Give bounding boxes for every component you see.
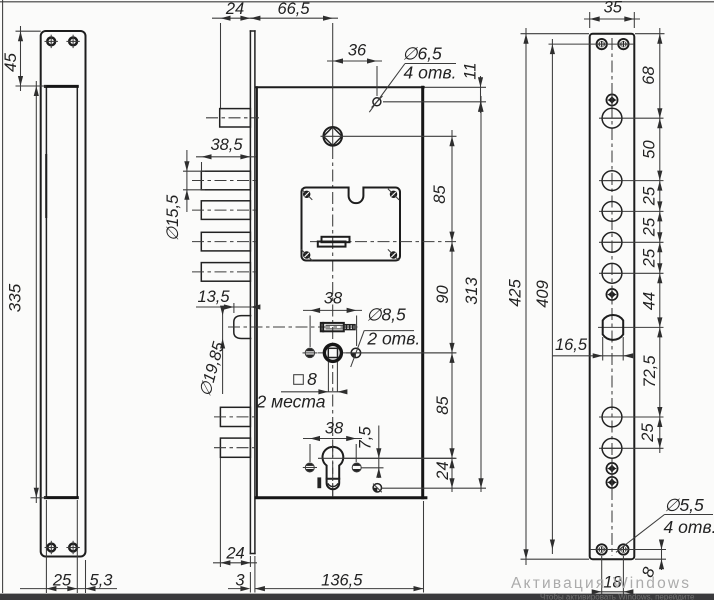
center: plate screw top-right: [390, 191, 397, 198]
right view: hole F: [602, 407, 622, 427]
svg-text:38: 38: [325, 420, 344, 438]
dim 425 ext: [521, 33, 590, 35]
label square 8: [294, 375, 304, 385]
right view: hole E ext: [599, 272, 664, 274]
dim 45 extension lines: [16, 30, 41, 32]
dim 8: [661, 541, 663, 570]
svg-text:25: 25: [641, 217, 659, 237]
center: lower bolt 2: [220, 438, 250, 457]
dim 38 upper: [303, 309, 362, 311]
dim dia15,5 ext: [183, 170, 205, 172]
right view: oval cylinder hole: [603, 315, 624, 340]
dim 16,5 ext: [602, 337, 604, 361]
dim 38,5: [196, 156, 256, 158]
center: deadbolt 3 centerline: [192, 241, 256, 243]
svg-text:25: 25: [639, 423, 657, 443]
svg-text:68: 68: [640, 66, 658, 85]
svg-text:2 отв.: 2 отв.: [366, 329, 420, 349]
center: euro cylinder: [323, 447, 344, 479]
dim 35 ext: [589, 12, 591, 28]
left view: dark edge segment: [45, 155, 47, 217]
svg-text:8: 8: [307, 369, 317, 389]
right view: hole C: [602, 202, 622, 222]
right chain ext lines: [345, 135, 457, 137]
dim 335: [35, 81, 37, 503]
svg-text:44: 44: [641, 292, 659, 310]
dim 313: [480, 96, 482, 492]
chain arrows: [449, 136, 454, 146]
center: roller bolt: [234, 316, 251, 339]
right view: hole B ext: [599, 180, 664, 182]
dim 409: [551, 39, 553, 554]
svg-text:∅8,5: ∅8,5: [366, 305, 406, 325]
dim chain 85/90/85/24 line: [451, 130, 453, 492]
right view: hole G ext: [599, 447, 664, 449]
dim 335 extension line: [31, 497, 47, 499]
leader dia8.5: [351, 331, 365, 367]
svg-text:∅15,5: ∅15,5: [164, 194, 182, 241]
svg-text:2 места: 2 места: [256, 392, 326, 412]
center: deadbolt 1 centerline: [192, 180, 256, 182]
left view: inner recess: [46, 86, 77, 498]
center: deadbolt 4 centerline: [192, 271, 256, 273]
left view: screw hole top-left: [47, 38, 55, 46]
dim 7,5 ext: [361, 467, 384, 469]
right view: csk hole 1: [606, 94, 617, 105]
dim 136,5: [255, 588, 424, 590]
center: key pin body: [321, 323, 344, 331]
svg-text:72,5: 72,5: [641, 355, 659, 388]
svg-text:4 отв.: 4 отв.: [664, 517, 714, 537]
center: hole left of follower: [305, 348, 314, 357]
svg-text:∅6,5: ∅6,5: [402, 44, 442, 64]
svg-text:136,5: 136,5: [321, 572, 363, 590]
dim 5,3: [86, 586, 96, 591]
dim 24 top: [212, 17, 256, 19]
dim sq8 ext: [327, 362, 329, 392]
dim 38,5 ext: [201, 162, 203, 171]
dim 24 top ext: [220, 23, 222, 108]
right view: hole C ext: [599, 210, 664, 212]
leader dia6,5: [377, 64, 405, 102]
left view: screw hole bottom-right: [69, 544, 77, 552]
dim 38 lower: [303, 438, 362, 440]
svg-text:45: 45: [1, 53, 20, 72]
svg-text:24: 24: [225, 545, 244, 563]
center: lower bolt 2 centerline: [214, 447, 256, 449]
svg-text:409: 409: [534, 280, 552, 308]
center: deadbolt 4: [201, 263, 250, 282]
center: plate screw top-left: [303, 191, 310, 198]
center: deadbolt 2: [201, 201, 250, 220]
left view: recess bottom edge: [45, 496, 77, 499]
left view: screw hole bottom-left: [47, 544, 55, 552]
dim 8 ext: [590, 549, 666, 551]
right view: faceplate outline: [590, 34, 635, 560]
dim 35: [584, 18, 640, 20]
svg-text:Активация Windows: Активация Windows: [511, 575, 691, 592]
center: lower bolt 1: [220, 407, 250, 426]
dim dia19,85: [222, 307, 224, 394]
right view: centerline: [611, 38, 613, 556]
left view: strike plate outline: [41, 31, 86, 557]
dim 66,5 top: [250, 17, 338, 19]
center: vertical centerline: [332, 23, 334, 147]
bottom ext lines: [249, 556, 251, 567]
svg-text:38: 38: [324, 290, 343, 308]
center: top latch bolt centerline: [206, 117, 259, 119]
right view: hole B: [602, 171, 622, 191]
center: cylinder fixing lug: [317, 477, 321, 488]
center: plate screw bottom-left: [303, 251, 310, 258]
right view: screw top-left: [596, 38, 608, 50]
center: cylinder centerline: [318, 457, 456, 459]
svg-text:4 отв.: 4 отв.: [404, 63, 457, 83]
svg-text:335: 335: [6, 283, 25, 312]
right view: hole A: [602, 108, 622, 128]
center: handle slot: [322, 237, 350, 242]
svg-text:313: 313: [463, 276, 481, 304]
center: deadbolt 2 centerline: [192, 209, 256, 211]
right view: screw top-right: [617, 38, 629, 50]
dim 18 ext: [601, 556, 603, 595]
dim 38 upper ext: [309, 316, 311, 348]
center: spindle hole: [323, 127, 342, 146]
center: hole right of cylinder: [352, 463, 361, 472]
center: mounting plate notch: [349, 187, 364, 204]
svg-text:16,5: 16,5: [555, 336, 588, 354]
right view: csk hole 4: [606, 477, 617, 488]
dim sq8 line: [281, 391, 346, 393]
dim 25: [20, 588, 117, 590]
svg-text:24: 24: [225, 0, 244, 18]
svg-text:35: 35: [604, 0, 623, 17]
svg-text:7,5: 7,5: [357, 426, 375, 450]
right view: hole G: [602, 438, 622, 458]
center: euro cylinder stem: [327, 479, 340, 490]
right view: hole E: [602, 263, 622, 283]
svg-text:25: 25: [641, 186, 659, 206]
right view: hole F ext: [599, 416, 664, 418]
dim 18: [595, 591, 630, 593]
dim 24 bottom: [213, 562, 257, 564]
bottom bar: [0, 594, 714, 600]
center: follower hub: [324, 344, 341, 361]
center: deadbolt 3: [201, 232, 250, 251]
svg-text:11: 11: [462, 62, 480, 79]
center: deadbolt 1: [201, 171, 250, 190]
drawing frame: [0, 1, 714, 3]
center: hole left of cylinder: [305, 463, 314, 472]
center: bottom-right mount hole: [373, 484, 381, 492]
dim 11: [480, 76, 482, 113]
right view: screw bottom-right: [617, 543, 629, 555]
svg-text:36: 36: [348, 42, 367, 60]
dim 45: [20, 26, 22, 91]
center: key pin tip: [344, 325, 355, 330]
svg-text:25: 25: [52, 572, 72, 590]
center: roller/pin centerline: [228, 326, 358, 328]
right view: oval ext: [598, 326, 664, 328]
dim 409 ext: [549, 43, 635, 45]
dim 24 bottom ext: [219, 458, 221, 567]
center: plate centerline: [310, 241, 456, 243]
center: top latch bolt: [220, 109, 251, 127]
leader dia5,5: [627, 515, 665, 544]
center: mounting plate: [302, 188, 401, 261]
right view: hole D ext: [599, 241, 664, 243]
center: hole right of follower: [351, 348, 360, 357]
svg-text:5,3: 5,3: [90, 572, 114, 590]
svg-text:425: 425: [507, 278, 525, 306]
svg-text:Чтобы активировать Windows, пе: Чтобы активировать Windows, перейдите: [540, 593, 695, 600]
dim 3: [228, 588, 247, 590]
svg-text:50: 50: [641, 140, 659, 159]
svg-text:13,5: 13,5: [197, 288, 230, 306]
dim 5,3 extension line: [85, 560, 87, 593]
svg-text:25: 25: [641, 248, 659, 268]
svg-text:66,5: 66,5: [277, 0, 310, 18]
svg-text:∅5,5: ∅5,5: [664, 495, 704, 515]
dim 7,5: [378, 426, 380, 479]
svg-text:24: 24: [434, 461, 452, 480]
center: plate screw bottom-right: [390, 251, 397, 258]
dim 13,5: [196, 306, 253, 308]
dim 36: [327, 60, 382, 62]
right view: hole D: [602, 232, 622, 252]
right view: screw bottom-left: [596, 543, 608, 555]
dim 16,5: [552, 355, 632, 357]
dim 38 lower ext: [309, 444, 311, 462]
svg-text:85: 85: [431, 185, 449, 204]
left view: screw hole top-right: [69, 38, 77, 46]
svg-text:3: 3: [235, 572, 245, 590]
dim dia15,5: [186, 150, 188, 212]
dim 25 extension lines: [45, 500, 47, 593]
dim 425: [525, 28, 527, 565]
dim 13,5 ext: [233, 303, 235, 313]
center: faceplate strip: [249, 31, 251, 554]
center: lower bolt 1 centerline: [214, 416, 256, 418]
right chain arrows: [657, 34, 662, 44]
svg-text:85: 85: [434, 396, 452, 415]
left view: recess top edge: [45, 85, 77, 88]
right view: csk hole 2: [606, 289, 617, 300]
center: top mount hole dia6,5: [373, 98, 381, 106]
right chain line: [659, 28, 661, 453]
right view: hole A ext: [599, 117, 664, 119]
center: follower centerline: [318, 352, 456, 354]
right view: csk hole 3: [606, 463, 617, 474]
svg-text:90: 90: [434, 285, 452, 304]
dim 11 ext: [424, 86, 486, 88]
svg-text:38,5: 38,5: [210, 136, 243, 154]
center: body outline: [256, 86, 424, 88]
